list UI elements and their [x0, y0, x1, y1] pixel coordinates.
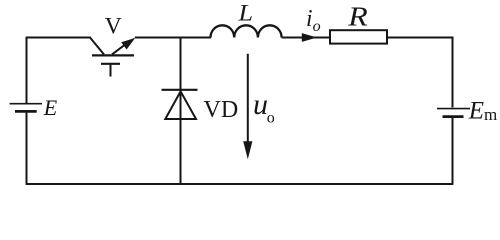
wire right vertical upper	[452, 37, 454, 108]
wire diode branch	[180, 38, 182, 185]
svg-text:V: V	[105, 13, 122, 39]
svg-text:L: L	[237, 0, 253, 25]
svg-text:o: o	[313, 18, 321, 35]
svg-text:u: u	[253, 88, 268, 121]
wire top right of inductor	[282, 37, 331, 39]
wire top left horizontal	[26, 37, 91, 39]
wire bottom	[26, 183, 454, 185]
svg-text:i: i	[306, 6, 313, 32]
diode VD	[162, 90, 198, 119]
wire top right horizontal	[387, 37, 453, 39]
svg-text:VD: VD	[204, 97, 239, 123]
wire left vertical lower	[26, 113, 28, 184]
svg-text:m: m	[484, 105, 497, 124]
wire top middle	[135, 37, 211, 39]
inductor L	[211, 25, 282, 37]
resistor R	[330, 30, 387, 43]
svg-text:E: E	[43, 95, 58, 120]
svg-text:E: E	[468, 98, 484, 125]
battery Em	[437, 109, 470, 117]
voltage arrow uo	[243, 54, 252, 159]
transistor V	[90, 37, 136, 77]
wire right vertical lower	[452, 118, 454, 184]
battery E	[10, 104, 42, 112]
wire left vertical upper	[26, 38, 28, 104]
svg-text:o: o	[267, 109, 275, 126]
current arrow io	[302, 33, 317, 42]
svg-text:R: R	[347, 2, 368, 32]
